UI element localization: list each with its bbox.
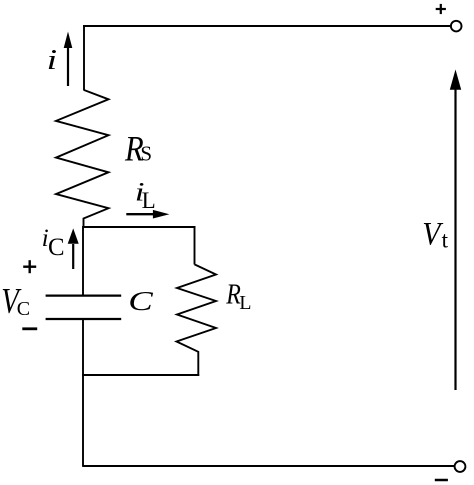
terminal circle bottom right (455, 461, 466, 472)
arrow Vt (450, 70, 461, 391)
wire: bottom horizontal to - terminal (83, 465, 454, 467)
terminal + (top right): plus sign (436, 4, 446, 14)
svg-text:C: C (128, 286, 154, 316)
wire: from capacitor bottom plate down to bottom wire (82, 319, 84, 467)
polarity + for VC (23, 260, 36, 273)
resistor RL (zigzag) (177, 264, 217, 376)
wire: top horizontal from top-left corner to + terminal (83, 25, 451, 27)
wire: top-left vertical from corner down to resistor RS (83, 25, 85, 90)
wire: RC loop bottom (82, 374, 199, 376)
terminal - (bottom right): minus sign (435, 479, 448, 482)
svg-text:S: S (140, 141, 152, 165)
svg-text:t: t (442, 228, 449, 253)
svg-text:L: L (239, 292, 251, 314)
svg-text:L: L (142, 188, 156, 213)
current arrow iC (68, 228, 79, 269)
wire: RL branch vertical from node down to RL (194, 226, 196, 265)
wire: node wire from RS bottom to RL branch (83, 226, 196, 228)
resistor RS (zigzag) (56, 90, 109, 228)
current arrow i (64, 32, 73, 87)
svg-text:C: C (48, 234, 65, 261)
terminal circle top right (451, 21, 462, 32)
current arrow iL (126, 210, 169, 219)
polarity - for VC (22, 327, 37, 330)
capacitor C top plate (46, 295, 122, 297)
wire: vertical from node down to capacitor top plate (82, 226, 84, 296)
svg-text:i: i (47, 45, 58, 76)
capacitor C bottom plate (46, 318, 122, 320)
svg-text:C: C (17, 298, 30, 320)
